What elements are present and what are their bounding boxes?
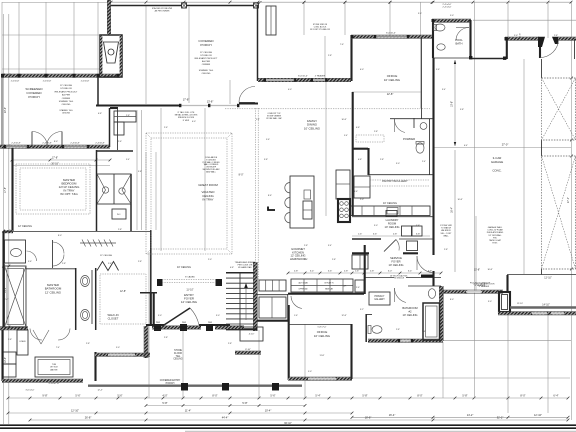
great room north doors glass (181, 105, 239, 107)
svg-text:14'-10": 14'-10" (542, 304, 550, 307)
hatch edges h (2, 73, 120, 75)
entry west wall (153, 292, 155, 326)
window sills family (266, 79, 295, 81)
svg-text:5'-8": 5'-8" (242, 401, 247, 405)
dim row bottom 1 (8, 397, 568, 399)
svg-text:44'-4": 44'-4" (222, 416, 229, 420)
long h grid y378 (352, 377, 570, 379)
porch window section (266, 6, 276, 35)
garage dim arrowhead a (454, 60, 456, 64)
svg-text:10' CEILING: 10' CEILING (304, 126, 321, 130)
office2 south hatch (288, 377, 352, 380)
svg-text:4'-0": 4'-0" (288, 89, 292, 91)
appliance box (355, 280, 364, 292)
svg-text:1'-6": 1'-6" (354, 191, 358, 193)
top dim ticks (259, 1, 262, 4)
svg-text:7'-4": 7'-4" (56, 347, 60, 349)
svg-text:2'-8": 2'-8" (304, 245, 308, 247)
hall h wall y148 (352, 148, 368, 150)
bath2 dim v (475, 216, 477, 291)
svg-text:12'-10": 12'-10" (534, 413, 542, 417)
border rule bottom c (185, 430, 576, 432)
wic north wall (96, 231, 151, 233)
service cubby div (359, 255, 361, 269)
range burners (340, 202, 344, 206)
office east wall (421, 37, 423, 119)
svg-text:5'-4": 5'-4" (344, 135, 348, 137)
dim v x149 (148, 252, 150, 398)
powder west wall (367, 148, 369, 175)
dim v x205 gr (204, 108, 206, 251)
patio edge line (510, 306, 576, 308)
svg-text:5'-0": 5'-0" (514, 35, 518, 37)
svg-text:2'-4": 2'-4" (422, 161, 426, 163)
wic closet rod (80, 242, 116, 244)
jamb alcove a (469, 56, 472, 59)
chimney west hatch (100, 35, 102, 77)
vanity east wall (130, 174, 132, 231)
svg-text:AS PER: AS PER (62, 94, 70, 97)
jamb alcove b (503, 57, 506, 60)
gr dim v d (155, 152, 157, 230)
chimney east hatch (120, 35, 122, 77)
svg-text:6'-4": 6'-4" (553, 394, 558, 398)
svg-text:3'-8": 3'-8" (264, 159, 268, 161)
dim row bottom right (352, 416, 568, 418)
svg-text:12' CEILING: 12' CEILING (45, 290, 62, 294)
garage door2 Xb (542, 156, 576, 269)
porch corner wall (239, 102, 258, 104)
garage east stub1 (574, 39, 576, 59)
dim v x305 (304, 324, 306, 398)
svg-text:TUB: TUB (52, 364, 57, 366)
svg-text:3'-8": 3'-8" (138, 171, 142, 173)
svg-text:5'-6": 5'-6" (270, 394, 275, 398)
pict wnd jambs (465, 290, 467, 293)
face pier 1 (154, 324, 161, 331)
bench cubbies (259, 280, 286, 291)
svg-text:W/ TILE: W/ TILE (50, 367, 58, 369)
porch pier wall W (144, 326, 148, 358)
svg-text:12' CEILING: 12' CEILING (18, 225, 32, 228)
svg-text:10'-8": 10'-8" (457, 199, 462, 201)
svg-text:16'-4": 16'-4" (451, 207, 454, 213)
svg-text:8'-0"x6'-0": 8'-0"x6'-0" (298, 76, 308, 78)
bath2 west jog (366, 314, 372, 316)
porch window section inner (270, 6, 272, 35)
island sink divider (303, 209, 312, 211)
great room north wall (96, 104, 181, 106)
svg-text:PORCH: PORCH (166, 382, 175, 385)
porch grid h1 (2, 2, 108, 4)
gr dashed pair b (257, 108, 259, 280)
wall cab boxes (354, 176, 370, 198)
svg-text:17'-8": 17'-8" (52, 157, 58, 160)
porch column NE (254, 3, 259, 8)
dim line left outer (3, 14, 5, 424)
svg-text:2'-6"x6'-8": 2'-6"x6'-8" (11, 81, 20, 83)
svg-text:11'-4": 11'-4" (185, 409, 191, 413)
garage north wall b (558, 37, 576, 40)
mud south wall (257, 320, 288, 322)
svg-text:2'-4"x6'-8": 2'-4"x6'-8" (70, 143, 80, 145)
svg-text:OWNER: OWNER (62, 98, 71, 100)
powder toilet (416, 143, 424, 153)
stair top edge (226, 272, 255, 274)
stair mid rail (239, 273, 241, 329)
patio south wall (498, 312, 576, 315)
linen box top (114, 111, 136, 122)
right dim ticks (570, 38, 573, 41)
window sill wic (108, 354, 135, 356)
svg-text:2'-8": 2'-8" (554, 35, 558, 37)
svg-text:2'-8": 2'-8" (126, 115, 130, 117)
svg-text:96'-10": 96'-10" (284, 422, 292, 425)
window sill office (375, 36, 408, 38)
linen box low (114, 122, 124, 135)
svg-text:8'-0": 8'-0" (417, 394, 422, 398)
laundry north wall (352, 216, 433, 218)
bath2 south hatch (368, 339, 443, 342)
tub box (35, 357, 73, 377)
porch grid v1 (18, 2, 20, 74)
hall door arc a (30, 329, 42, 341)
laundry door leaf (384, 240, 396, 252)
family door arc (239, 87, 255, 103)
service north seg b (403, 252, 418, 254)
tray corner d (227, 249, 232, 254)
garage grid v x524 (523, 59, 525, 274)
svg-text:(9'x8') GARAGE DOOR: (9'x8') GARAGE DOOR (474, 283, 496, 286)
porch line v x146 (145, 6, 147, 104)
garage dim arrowhead b (454, 142, 456, 146)
screened porch west edge (1, 75, 3, 146)
svg-text:2'-8": 2'-8" (86, 343, 90, 345)
entry arch dash b (162, 281, 215, 283)
svg-text:2'-6"x6'-8": 2'-6"x6'-8" (43, 81, 52, 83)
svg-text:2'-8": 2'-8" (164, 337, 168, 339)
bath2 door arc (395, 288, 407, 303)
service north seg a (352, 252, 369, 254)
master wnd jambs (4, 145, 6, 148)
wic east wall (150, 292, 152, 324)
island sink main (303, 201, 312, 219)
bath north wall (26, 268, 76, 270)
svg-text:3'-2": 3'-2" (360, 309, 364, 311)
svg-text:9'-8": 9'-8" (42, 394, 47, 398)
svg-text:STAINED T&G: STAINED T&G (199, 69, 214, 72)
bath2 north wall (408, 285, 441, 287)
svg-text:3'-6": 3'-6" (28, 261, 32, 263)
svg-text:SERVICE: SERVICE (390, 256, 402, 260)
svg-text:2'-8": 2'-8" (118, 229, 122, 231)
kitchen dim h (288, 272, 441, 274)
hall south wall (140, 292, 157, 294)
svg-text:17'-8": 17'-8" (5, 187, 7, 193)
door sill bath2 (421, 275, 433, 278)
master window 2 (63, 146, 88, 148)
porch column NW (182, 3, 187, 8)
svg-text:2'-4": 2'-4" (256, 119, 260, 121)
mud north wall (257, 294, 288, 296)
covered porch north wall (111, 5, 258, 7)
kitchen cab shelfline (291, 285, 353, 287)
svg-text:3'-0": 3'-0" (488, 301, 492, 303)
svg-text:5'-4": 5'-4" (315, 394, 320, 398)
patio wnd jambs (531, 312, 533, 315)
svg-text:PORCH: PORCH (200, 43, 211, 47)
stair east wall (254, 262, 258, 331)
svg-text:CLOSET: CLOSET (108, 316, 119, 320)
svg-text:10' CEILING: 10' CEILING (383, 202, 397, 205)
garage step wall v (506, 38, 508, 59)
hall vanity divider (113, 174, 115, 204)
master window 1 (5, 146, 28, 148)
wic wnd jambs (107, 353, 109, 356)
svg-text:2'-8": 2'-8" (328, 55, 332, 57)
powder sink (420, 123, 427, 130)
svg-text:STAINED T&G: STAINED T&G (59, 100, 74, 103)
svg-text:2'-8": 2'-8" (396, 329, 400, 331)
svg-text:W/ GRIDDLE: W/ GRIDDLE (394, 278, 405, 280)
svg-text:CEILING: CEILING (202, 73, 211, 75)
dim v x443 low (442, 342, 444, 398)
garage east stub4 (541, 269, 543, 275)
stair up arrow (245, 284, 247, 320)
bath2 toilet tank (368, 326, 371, 334)
bath south hatch (0, 327, 28, 330)
entry arch stub R (216, 279, 223, 286)
svg-text:1'-6": 1'-6" (358, 234, 363, 236)
porch column NE x (254, 3, 259, 8)
top dim v x304 (303, 2, 305, 35)
island prep sink (304, 190, 311, 199)
porch dim v x230 (229, 80, 231, 104)
laundry dim h (352, 235, 430, 237)
svg-text:RELEVANT PRODUCT: RELEVANT PRODUCT (195, 57, 218, 60)
svg-text:5'-6": 5'-6" (373, 234, 378, 236)
chimney firebox trapezoid (104, 42, 119, 63)
window sill office2 (308, 378, 336, 380)
entry door leaf (164, 308, 190, 325)
svg-text:12'-10": 12'-10" (517, 303, 523, 305)
svg-text:5'-0": 5'-0" (450, 15, 454, 17)
svg-text:2'-6": 2'-6" (164, 127, 168, 129)
laundry south wall b (399, 238, 433, 240)
office2 door arc (291, 296, 302, 309)
master toilet (11, 249, 22, 257)
office wnd jambs (374, 35, 376, 38)
privacy hall north b (406, 277, 441, 279)
great room NE corner (110, 107, 118, 109)
toilet rm east wall (52, 240, 54, 268)
mb dim h2 (12, 165, 110, 167)
family door leaf (239, 102, 255, 104)
dim v x183 (182, 330, 184, 398)
pool bath toilet (435, 24, 445, 31)
svg-text:3'-4": 3'-4" (328, 245, 332, 247)
hall east wall (150, 230, 152, 292)
svg-text:4'-0": 4'-0" (192, 121, 196, 123)
dim row bottom 2 ticks (7, 412, 10, 415)
svg-text:5'-6": 5'-6" (75, 394, 80, 398)
svg-text:2'-6": 2'-6" (118, 141, 122, 143)
outer pier 1 (181, 383, 188, 391)
wic south window (108, 354, 135, 356)
west jog hatch (3, 230, 13, 233)
svg-text:3'-4": 3'-4" (408, 271, 413, 273)
svg-text:2'-8": 2'-8" (8, 339, 12, 341)
window sills master (5, 146, 28, 148)
toilet room door arc (27, 251, 37, 261)
vanity wall west (75, 268, 77, 330)
svg-text:2'-4"x6'-8": 2'-4"x6'-8" (42, 143, 52, 145)
svg-text:9'-8": 9'-8" (460, 109, 464, 111)
svg-text:5'-6": 5'-6" (117, 394, 122, 398)
master south wall (3, 231, 96, 233)
svg-text:INSULATION AND: INSULATION AND (487, 231, 504, 234)
door jamb b (208, 104, 210, 107)
svg-text:METAL (STEEL) DOORS: METAL (STEEL) DOORS (175, 114, 198, 117)
kitchen dim ticks (287, 272, 290, 275)
hall door arc b (58, 329, 70, 341)
svg-text:3'-4": 3'-4" (442, 89, 446, 91)
bifold closet doors (97, 262, 119, 271)
garage north wall a (505, 37, 539, 40)
svg-text:12' CEILING: 12' CEILING (181, 300, 198, 304)
tray corner a (146, 133, 151, 138)
covered porch east wall (257, 5, 259, 81)
svg-text:STONE: STONE (174, 350, 182, 352)
garage grid v x508 top (507, 2, 509, 38)
svg-text:1'-6": 1'-6" (355, 271, 360, 273)
svg-text:5'-4": 5'-4" (126, 159, 130, 161)
entry south wall R (199, 324, 230, 326)
garage dim arrowline2 (454, 150, 456, 272)
svg-text:10' CEILING: 10' CEILING (314, 334, 331, 338)
svg-text:10' CEILING: 10' CEILING (402, 313, 417, 317)
svg-text:26'-8": 26'-8" (85, 416, 92, 420)
svg-text:GREAT ROOM: GREAT ROOM (198, 183, 218, 187)
svg-text:6'-4": 6'-4" (464, 145, 468, 147)
bath2 south window (399, 340, 412, 342)
svg-text:8'-0": 8'-0" (58, 235, 62, 237)
garage grid v x474 (474, 2, 476, 398)
office2 wnd jambs (307, 377, 309, 380)
kitchen east wall v (364, 245, 366, 294)
svg-text:2'-8": 2'-8" (380, 159, 384, 161)
family wnd jambs (264, 78, 266, 81)
stairs treads (226, 277, 254, 279)
toilet room box (5, 240, 26, 263)
svg-text:2'-4"x6'-8": 2'-4"x6'-8" (11, 143, 21, 145)
kitchen south wall (288, 293, 364, 295)
svg-text:2'-8": 2'-8" (444, 249, 448, 251)
svg-text:WALL: WALL (443, 234, 449, 237)
svg-text:W/ HAND RAIL: W/ HAND RAIL (238, 266, 253, 269)
bath2 toilet (372, 326, 382, 334)
laundry sink (386, 211, 397, 217)
svg-text:3'-0": 3'-0" (396, 163, 400, 165)
gr dashed pair a (255, 108, 257, 280)
pantry shelf dots a (370, 179, 430, 181)
face pier 3 (206, 324, 213, 331)
svg-text:8'-0": 8'-0" (212, 394, 217, 398)
gr dim v b (141, 110, 143, 230)
south wall right b (482, 290, 503, 293)
svg-text:12' CEILING: 12' CEILING (60, 85, 73, 87)
bedroom east wall (96, 150, 98, 231)
garage dim arrowline (454, 60, 456, 146)
garage door jamb L (538, 37, 545, 47)
top dim v x390 (389, 2, 391, 36)
hall vanity sink b (119, 188, 125, 194)
overhang dashed (225, 108, 430, 110)
powder east wall (429, 119, 431, 175)
top dim v x345 (344, 2, 346, 35)
svg-text:5'-10"x7'-0": 5'-10"x7'-0" (48, 383, 59, 385)
svg-text:2'-8": 2'-8" (138, 261, 142, 263)
svg-text:GALLERY: GALLERY (374, 298, 385, 301)
porch grid h2 (2, 34, 100, 36)
jamb garage nw (505, 37, 508, 40)
south wall right a (441, 290, 466, 293)
garage door2 dashed rect (542, 156, 576, 269)
privacy box (369, 292, 390, 305)
face pier 2 (180, 324, 187, 331)
svg-text:12' CEILING: 12' CEILING (200, 52, 213, 54)
dim row bottom 1 ticks (7, 397, 10, 400)
svg-text:5'-0": 5'-0" (116, 347, 120, 349)
family window 1 (266, 79, 295, 81)
svg-text:2'-8": 2'-8" (228, 343, 232, 345)
stair landing box (240, 327, 263, 341)
border rule bottom a (0, 424, 576, 426)
porch grid left edge (1, 2, 3, 74)
svg-text:PIER: PIER (182, 322, 187, 324)
svg-text:12' CEILING: 12' CEILING (100, 255, 113, 257)
service door leaf (416, 256, 418, 270)
office2 west wall (288, 305, 290, 380)
bath2 tub (423, 303, 440, 340)
pillar inner hatch (502, 295, 508, 310)
office window (375, 36, 408, 38)
svg-text:2'-0": 2'-0" (208, 259, 212, 261)
pillar outdoor (499, 292, 510, 312)
left wing south hatch (2, 379, 83, 382)
svg-text:8'-0"x6'-0": 8'-0"x6'-0" (386, 33, 396, 35)
svg-text:LINEN: LINEN (20, 341, 26, 343)
svg-text:2'-8": 2'-8" (370, 271, 375, 273)
laundry door arc (396, 240, 399, 251)
vanity sink 2 in (82, 311, 87, 318)
svg-text:PIER: PIER (156, 322, 161, 324)
svg-text:8' HDR: 8' HDR (183, 120, 190, 122)
pantry shelf dots b (370, 185, 430, 187)
wall x118 linen (117, 108, 119, 150)
dim v x259 (258, 330, 260, 398)
bath2 tub inner (426, 306, 438, 337)
svg-text:3'-0": 3'-0" (418, 13, 422, 15)
kitchen cab row dividers (303, 279, 305, 292)
svg-text:32'-2": 32'-2" (497, 416, 504, 420)
linen shelf marks (114, 116, 136, 118)
svg-text:CONC.: CONC. (492, 169, 502, 173)
svg-text:5'-6": 5'-6" (266, 139, 270, 141)
patio window 1 (532, 312, 547, 314)
family north wall (258, 79, 351, 82)
laundry appliances (402, 226, 412, 236)
